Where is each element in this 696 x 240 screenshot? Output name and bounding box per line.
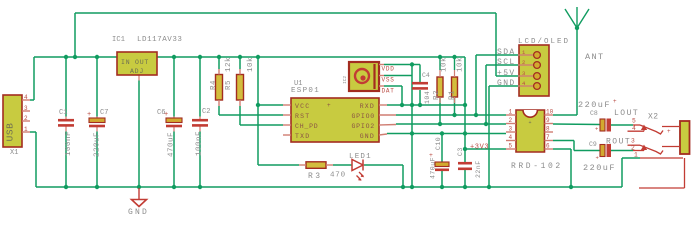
wire C4 bottom lead — [419, 90, 421, 105]
wire C3 top lead — [464, 149, 466, 162]
wire cap red stubs — [66, 75, 200, 132]
svg-text:SCL: SCL — [497, 58, 516, 67]
wire R5 bottom to CH_PD — [240, 106, 283, 125]
capacitor C1 — [58, 109, 74, 125]
svg-text:7: 7 — [546, 134, 550, 141]
label X1 — [10, 149, 18, 157]
label C1 value — [65, 131, 73, 156]
wire VCC drop — [257, 57, 259, 165]
svg-text:R1: R1 — [449, 90, 457, 100]
wire R4 top — [218, 57, 220, 69]
label ESP01 — [291, 87, 320, 95]
svg-text:OUT: OUT — [135, 59, 149, 66]
resistor R1 — [452, 57, 458, 103]
label ANT — [585, 52, 605, 62]
svg-text:470uF: 470uF — [430, 157, 437, 179]
svg-text:+3V3: +3V3 — [470, 144, 489, 152]
svg-text:LCD/OLED: LCD/OLED — [518, 38, 570, 46]
resistor R5 — [237, 69, 244, 106]
svg-text:104: 104 — [424, 91, 431, 104]
svg-text:R3: R3 — [308, 172, 323, 181]
svg-text:220uF: 220uF — [578, 100, 611, 110]
USB connector X1 — [3, 94, 30, 147]
svg-text:GND: GND — [360, 133, 375, 140]
label C6 value — [168, 132, 176, 157]
label LOUT — [614, 109, 639, 118]
capacitor C2 — [192, 108, 210, 125]
svg-text:X2: X2 — [648, 113, 658, 122]
wire pin7 jog — [553, 141, 600, 151]
wire RXD row — [387, 104, 465, 106]
svg-text:ESP01: ESP01 — [291, 87, 320, 95]
svg-text:5: 5 — [632, 118, 636, 125]
svg-text:220uF: 220uF — [583, 163, 616, 173]
node +3V3 — [470, 144, 489, 152]
label C7 value — [94, 132, 102, 157]
wire C2 top — [199, 57, 201, 117]
svg-text:+: + — [528, 120, 531, 126]
svg-text:1: 1 — [509, 109, 513, 116]
wire C2 bottom — [199, 132, 201, 188]
capacitor C6 — [157, 109, 182, 126]
svg-text:100nF: 100nF — [196, 131, 204, 156]
svg-text:10k: 10k — [441, 57, 449, 72]
svg-text:+5V: +5V — [497, 69, 516, 78]
label C4 value — [424, 91, 431, 104]
wire SDA net GPIO0 row — [396, 114, 506, 116]
svg-text:SDA: SDA — [497, 48, 516, 57]
svg-text:VCC: VCC — [295, 103, 310, 110]
wire C10 bottom lead — [441, 171, 443, 187]
label R5 value — [225, 57, 233, 72]
connector LCD/OLED — [518, 45, 549, 96]
svg-text:ADJ: ADJ — [130, 68, 144, 75]
svg-text:C1: C1 — [59, 109, 67, 117]
capacitor C7 — [87, 109, 108, 126]
svg-text:C10: C10 — [435, 137, 442, 150]
wire IC1 ADJ — [138, 81, 140, 189]
label C10 value — [430, 157, 437, 179]
svg-text:6: 6 — [546, 143, 550, 150]
svg-text:10k: 10k — [247, 57, 255, 72]
wire C9 to jack — [611, 150, 633, 152]
svg-text:470: 470 — [330, 172, 346, 180]
svg-text:C8: C8 — [590, 110, 598, 117]
resistor R4 — [216, 69, 223, 106]
wire C7 top — [96, 57, 98, 117]
wire VDD — [384, 64, 420, 66]
capacitor C3 — [458, 163, 472, 169]
wire USB pin1 drop — [30, 132, 36, 187]
label GND net — [497, 79, 516, 88]
radio module RRD-102 — [506, 109, 554, 153]
wire R1 bottom — [454, 97, 456, 115]
ground GND — [128, 188, 149, 217]
svg-text:IN: IN — [121, 59, 130, 66]
svg-text:C4: C4 — [422, 72, 430, 79]
wire R4 bottom to RST — [219, 106, 283, 115]
svg-text:IC1: IC1 — [112, 36, 125, 44]
svg-text:GND: GND — [128, 208, 149, 217]
label IC1 value — [137, 36, 182, 44]
capacitor C4 — [412, 72, 430, 88]
label SDA — [497, 48, 516, 57]
svg-text:220uF: 220uF — [94, 132, 102, 157]
svg-text:X1: X1 — [10, 149, 18, 157]
label R1 value — [457, 57, 465, 72]
wire LED out — [364, 165, 403, 187]
regulator IC1 — [117, 52, 157, 75]
wire VSS — [384, 75, 412, 77]
svg-text:9: 9 — [546, 117, 550, 124]
wire VCC to ESP — [258, 104, 283, 106]
label R3 value — [330, 172, 346, 180]
label C10 — [429, 137, 442, 159]
wire DAT — [384, 86, 402, 105]
svg-text:ROUT: ROUT — [606, 138, 631, 147]
svg-text:+: + — [596, 155, 599, 162]
diode LED1 — [352, 160, 364, 181]
label U1 — [294, 80, 302, 88]
label R2 — [433, 90, 441, 100]
svg-text:VDD: VDD — [382, 66, 395, 73]
wire 5V rail — [34, 56, 117, 58]
wire SCL to LCD — [486, 65, 518, 124]
svg-text:RST: RST — [295, 113, 310, 120]
label R1 — [449, 90, 457, 100]
svg-text:C7: C7 — [100, 109, 108, 117]
wire C6 top — [173, 57, 175, 117]
svg-text:3: 3 — [631, 138, 635, 145]
svg-text:+: + — [595, 126, 598, 133]
svg-text:GPIO0: GPIO0 — [351, 113, 375, 120]
transistor IC2 sensor — [342, 62, 384, 91]
wire C4 top lead — [419, 65, 421, 83]
svg-text:+: + — [164, 111, 168, 119]
svg-text:IC2: IC2 — [342, 76, 348, 84]
label R3 — [308, 172, 323, 181]
wire +5V to LCD — [496, 75, 518, 77]
wire C1 top — [65, 57, 67, 117]
svg-text:LED1: LED1 — [349, 153, 372, 161]
wire pin6 down — [553, 149, 571, 187]
svg-text:8: 8 — [546, 126, 550, 133]
label R4 — [210, 80, 218, 90]
svg-text:TXD: TXD — [295, 133, 310, 140]
label DAT — [382, 88, 395, 95]
svg-text:R4: R4 — [210, 80, 218, 90]
wire pin9 to C8 — [553, 123, 600, 126]
label C3 — [457, 147, 464, 156]
wire ANT drop — [553, 28, 577, 115]
svg-text:3: 3 — [522, 70, 525, 77]
label ROUT — [606, 138, 631, 147]
svg-text:LD117AV33: LD117AV33 — [137, 36, 182, 44]
wire R3 feed — [258, 164, 299, 166]
label C3 value — [475, 160, 482, 178]
capacitor C9 — [589, 141, 611, 162]
wire 3V3 drop — [464, 57, 466, 149]
svg-text:+: + — [327, 102, 331, 109]
svg-text:ANT: ANT — [585, 52, 605, 62]
svg-text:1: 1 — [24, 126, 28, 133]
svg-text:RRD-102: RRD-102 — [511, 162, 563, 171]
wire C8 to jack — [611, 124, 633, 126]
resistor R3 — [299, 162, 333, 169]
svg-text:12k: 12k — [225, 57, 233, 72]
wire C7 bottom — [96, 132, 98, 188]
svg-text:3: 3 — [24, 105, 28, 112]
wire jack pin1 — [622, 158, 640, 187]
wire C10 top lead — [441, 134, 443, 163]
label R5 — [225, 80, 233, 90]
wire SCL net GPIO2 row — [396, 123, 506, 125]
svg-text:3: 3 — [509, 126, 513, 133]
capacitor C8 — [590, 110, 611, 133]
label R4 value — [247, 57, 255, 72]
wire junction dots — [64, 26, 579, 189]
wire +5V top — [75, 12, 496, 14]
label LED1 — [349, 153, 372, 161]
svg-text:GPIO2: GPIO2 — [351, 123, 375, 130]
svg-text:VSS: VSS — [382, 77, 395, 84]
wire LCD GND — [489, 86, 518, 187]
wire R3 to LED — [333, 164, 352, 166]
wire R2 bottom — [439, 97, 441, 124]
svg-text:GND: GND — [497, 79, 516, 88]
label R2 value — [441, 57, 449, 72]
svg-text:USB: USB — [5, 123, 16, 142]
wire GND row — [387, 133, 506, 135]
label IC1 — [112, 36, 125, 44]
label C9 value — [583, 163, 616, 173]
wire +5V top left drop — [74, 13, 76, 57]
svg-text:C2: C2 — [202, 108, 210, 116]
svg-text:10: 10 — [546, 109, 554, 116]
wire +3V3 row — [465, 148, 506, 150]
label C2 value — [196, 131, 204, 156]
wire +5V top drop — [495, 13, 497, 76]
wire SDA to LCD — [476, 55, 518, 115]
label VDD — [382, 66, 395, 73]
svg-text:5: 5 — [509, 143, 513, 150]
svg-text:R5: R5 — [225, 80, 233, 90]
wire GND vertical — [411, 65, 413, 188]
wire R5 top — [239, 57, 241, 69]
capacitor C10 — [435, 162, 449, 170]
svg-text:22nF: 22nF — [475, 160, 482, 178]
svg-text:10k: 10k — [457, 57, 465, 72]
label SCL — [497, 58, 516, 67]
wire C3 bottom lead — [464, 170, 466, 187]
svg-text:1: 1 — [634, 152, 638, 159]
label RRD-102 — [511, 162, 563, 171]
op-amp U1 ESP01 module — [283, 98, 396, 142]
svg-text:4: 4 — [24, 94, 28, 101]
resistor R2 — [437, 57, 443, 103]
svg-text:RXD: RXD — [360, 103, 375, 110]
svg-text:470uF: 470uF — [168, 132, 176, 157]
svg-text:+: + — [87, 111, 91, 119]
svg-text:2: 2 — [509, 117, 513, 124]
wire GND bottom rail — [36, 186, 622, 188]
label VSS — [382, 77, 395, 84]
antenna ANT — [565, 7, 589, 28]
svg-text:DAT: DAT — [382, 88, 395, 95]
svg-text:4: 4 — [509, 134, 513, 141]
label +5V — [497, 69, 516, 78]
connector X2 jack — [628, 113, 690, 189]
svg-text:C3: C3 — [457, 147, 464, 156]
wire USB pin4 riser — [30, 57, 34, 100]
svg-text:+: + — [667, 128, 671, 135]
wire C1 bottom — [65, 132, 67, 188]
svg-text:2: 2 — [522, 59, 525, 66]
svg-text:2: 2 — [24, 115, 28, 122]
wire 3V3 rail — [156, 56, 465, 58]
svg-text:CH_PD: CH_PD — [295, 123, 319, 130]
svg-text:100nF: 100nF — [65, 131, 73, 156]
label LCD/OLED — [518, 38, 570, 46]
wire C6 bottom — [173, 132, 175, 188]
svg-text:C9: C9 — [589, 141, 597, 148]
label C8 value — [578, 98, 617, 110]
svg-text:R2: R2 — [433, 90, 441, 100]
svg-text:+: + — [613, 98, 617, 105]
